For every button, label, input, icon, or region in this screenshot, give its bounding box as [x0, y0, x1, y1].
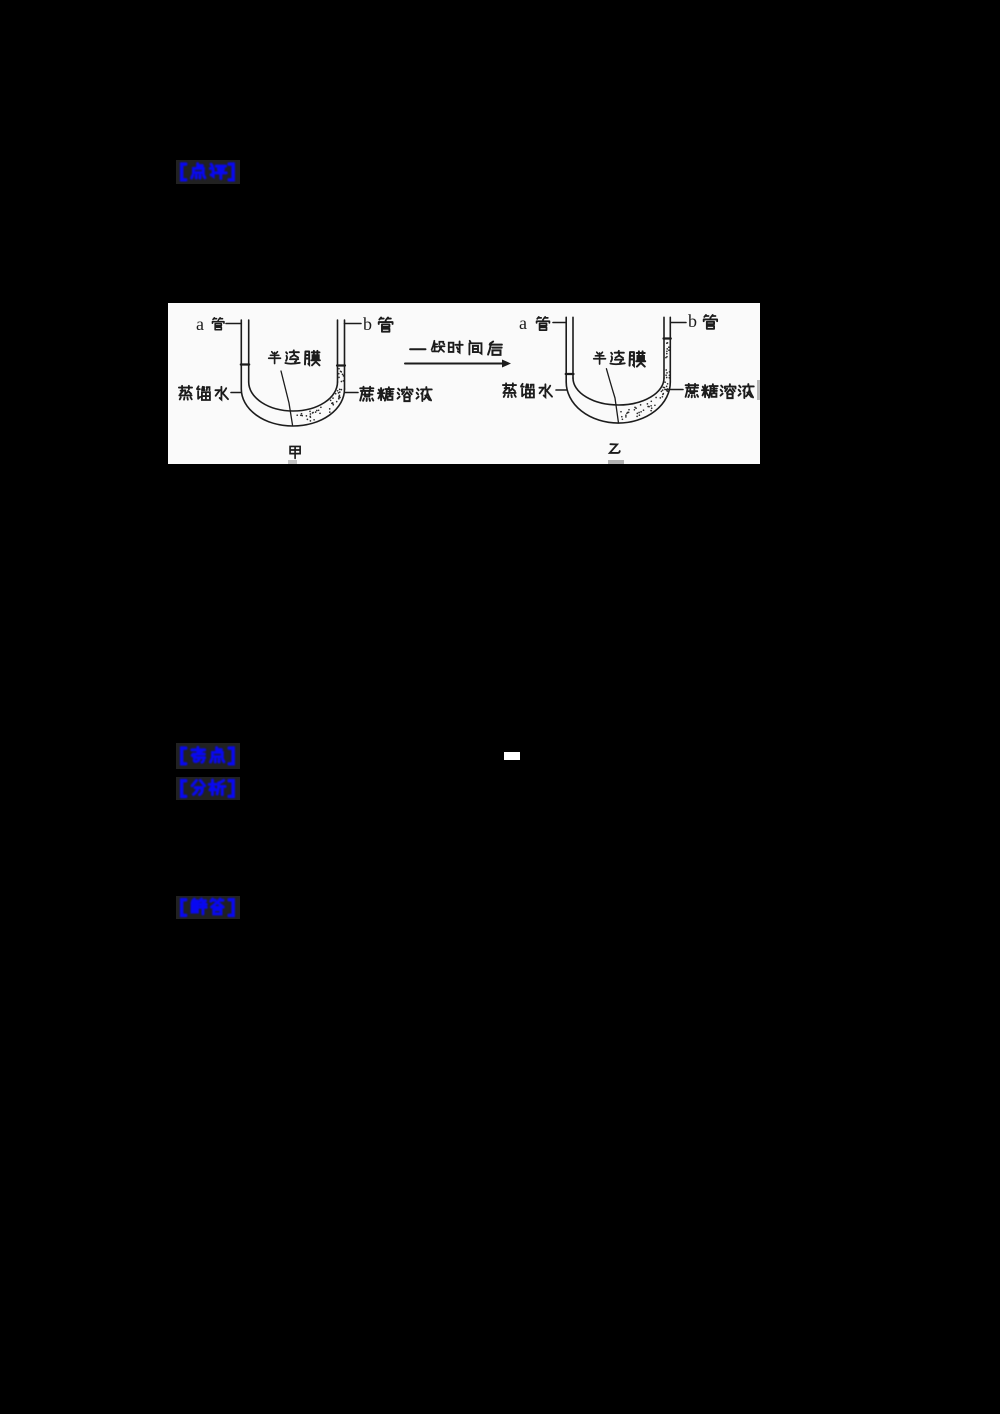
blue tag 【点评】 [176, 160, 240, 184]
甲 蔗糖溶液 tick [345, 392, 359, 394]
甲 membrane pointer [281, 371, 293, 425]
甲 caption [290, 446, 300, 458]
甲 label 半透膜 [269, 352, 281, 364]
乙 gray tab [608, 460, 624, 464]
甲 left water level [241, 363, 249, 365]
甲 right sucrose level [337, 364, 345, 366]
甲 蒸馏水 tick [231, 392, 241, 394]
blue tag 【考点】 [176, 743, 240, 769]
甲 b管 tick [345, 323, 362, 325]
甲 label 蒸馏水 [179, 386, 192, 400]
svg-text:b: b [688, 311, 697, 331]
甲 label 管(b) [379, 317, 393, 331]
white dash [504, 752, 520, 760]
乙 label 半透膜 [594, 352, 606, 364]
乙 label 管(a) [537, 317, 550, 330]
乙 蒸馏水 tick [556, 389, 566, 391]
arrow label 一段时间后 [410, 348, 425, 350]
乙 right sucrose level [664, 337, 671, 339]
U-tube 甲 right arm walls [338, 320, 345, 389]
hidden defs svg [0, 0, 1, 1]
svg-text:b: b [363, 314, 372, 334]
arrow line [405, 363, 503, 365]
blue tag 【解答】 [176, 896, 240, 919]
svg-text:a: a [196, 314, 204, 334]
甲 stipple sucrose dots [297, 369, 343, 421]
U-tube 乙 inner bottom curve [573, 378, 664, 405]
U-tube 乙 left arm walls [566, 317, 573, 382]
甲 label 管 [212, 318, 224, 330]
乙 membrane pointer [606, 369, 618, 423]
乙 caption [610, 444, 620, 453]
乙 label 管(b) [704, 315, 717, 329]
U-tube 甲 outer bottom curve [241, 389, 344, 426]
U-tube 甲 inner bottom curve [249, 382, 338, 411]
甲 a管 tick [226, 323, 241, 325]
乙 left water level [566, 373, 574, 375]
diagram white panel [168, 303, 760, 464]
甲 gray tab [288, 460, 297, 464]
乙 label 蔗糖溶液 [686, 384, 699, 398]
U-tube 乙 outer bottom curve [566, 382, 670, 423]
blue tag 【分析】 [176, 777, 240, 800]
乙 a管 tick [553, 322, 566, 324]
乙 b管 tick [670, 322, 686, 324]
乙 stipple sucrose dots [621, 343, 670, 419]
svg-text:a: a [519, 313, 527, 333]
乙 label 蒸馏水 [503, 383, 516, 397]
arrow head [502, 360, 511, 368]
乙 蔗糖溶液 tick [665, 389, 683, 391]
U-tube 乙 right arm walls [664, 317, 670, 382]
甲 label 蔗糖溶液 [360, 387, 373, 401]
乙 cut-off char at edge [757, 380, 760, 400]
U-tube 甲 left arm walls [241, 320, 248, 389]
